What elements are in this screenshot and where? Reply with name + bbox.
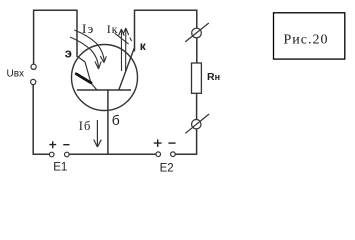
current arrow Ik line 2 — [123, 28, 129, 71]
current arrow Ie curve upper head — [100, 56, 106, 63]
svg-text:E2: E2 — [160, 162, 174, 174]
battery E1 minus sign — [63, 144, 69, 146]
transistor VT1 collector lead — [119, 48, 135, 90]
current arrow Ik small tick — [130, 38, 132, 42]
resistor Rn body — [192, 63, 202, 93]
wire: base lead down to bottom rail — [107, 90, 109, 154]
battery E2 minus sign — [168, 142, 175, 144]
current arrow Ik diagonal tick — [115, 33, 129, 44]
battery E2 plus sign — [154, 139, 162, 147]
svg-text:Iэ: Iэ — [82, 21, 95, 36]
battery E1 left terminal — [49, 152, 54, 157]
current arrow Ie curve lower head — [95, 61, 101, 69]
svg-text:к: к — [140, 39, 147, 53]
transistor VT1 body circle — [72, 45, 138, 111]
current arrow Ie curve lower — [70, 37, 99, 68]
battery E1 plus sign — [49, 141, 56, 148]
wire: meter A1 top to collector drop — [135, 10, 197, 51]
input terminal upper — [31, 64, 36, 69]
battery E2 left terminal — [156, 152, 161, 157]
meter A2 arrow slash — [185, 114, 209, 133]
wire: E2 to meter A2 riser — [175, 129, 196, 154]
battery E1 right terminal — [65, 152, 70, 157]
meter A2 circle — [192, 120, 201, 129]
wire: E1 to E2 bottom run with base junction — [69, 153, 156, 155]
current arrow Ik line 1 — [119, 29, 125, 71]
wire: meter A2 to resistor Rn — [196, 93, 198, 119]
battery E2 right terminal — [171, 152, 176, 157]
svg-text:б: б — [112, 112, 120, 128]
wire: lower input terminal down and right to E1 — [33, 85, 49, 155]
figure caption box — [274, 13, 345, 59]
transistor VT1 base bar — [77, 89, 131, 91]
meter A1 circle — [192, 28, 202, 38]
transistor VT1 emitter arrow (thick) — [76, 74, 91, 83]
svg-text:Iк: Iк — [107, 22, 118, 36]
current arrow Ie curve upper — [74, 30, 104, 62]
svg-text:э: э — [65, 45, 72, 60]
svg-text:Uвх: Uвх — [7, 68, 25, 79]
meter A1 arrow slash — [185, 23, 209, 42]
svg-text:Rн: Rн — [207, 71, 220, 83]
wire: input top loop to emitter — [34, 10, 77, 64]
transistor VT1 emitter lead — [78, 57, 98, 91]
current arrow Ib head — [94, 140, 102, 148]
current arrow Ib shaft — [96, 120, 98, 147]
svg-text:E1: E1 — [53, 162, 67, 174]
svg-text:Рис.20: Рис.20 — [284, 32, 329, 47]
wire: resistor Rn to meter A1 — [196, 38, 198, 63]
svg-text:Iб: Iб — [79, 119, 92, 133]
input terminal lower — [31, 79, 36, 84]
